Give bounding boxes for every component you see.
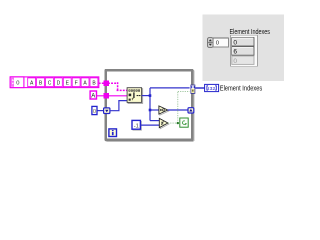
boolean wire not-equal to junction, tunnel and conditional terminal bbox=[168, 91, 190, 123]
svg-text:C: C bbox=[48, 81, 52, 87]
index sub box bbox=[10, 77, 24, 88]
wire tunnel to indicator bbox=[195, 87, 204, 89]
svg-text:6: 6 bbox=[233, 49, 237, 56]
index display box bbox=[213, 38, 229, 47]
while loop border bbox=[105, 69, 195, 142]
index spinner bbox=[208, 38, 213, 48]
wire search output to junction column bbox=[142, 88, 190, 121]
left shift register (down arrow) bbox=[104, 108, 110, 114]
tunnel for string A on loop border bbox=[103, 93, 109, 99]
array element cell 1 value 0 bbox=[232, 38, 254, 47]
svg-text:0: 0 bbox=[93, 109, 96, 115]
svg-text:0: 0 bbox=[16, 81, 19, 87]
junction dot to increment bbox=[149, 109, 152, 112]
right shift register (up arrow) bbox=[188, 108, 194, 113]
not equal? function bbox=[159, 118, 169, 128]
wire left SR to search start index input bbox=[110, 101, 127, 111]
string wire A to search element input bbox=[97, 95, 128, 97]
front panel background bbox=[203, 14, 284, 81]
svg-text:I32: I32 bbox=[208, 86, 216, 92]
array element cells A B C D E F A B bbox=[28, 78, 98, 87]
top array cells row bbox=[129, 90, 131, 92]
array shell bbox=[231, 35, 258, 66]
numeric constant -1 bbox=[132, 120, 141, 130]
svg-text:0: 0 bbox=[233, 39, 237, 46]
search pointer bar bbox=[133, 92, 134, 98]
wire 0 to left shift register bbox=[97, 110, 104, 112]
increment +1 function bbox=[159, 106, 169, 115]
svg-text:-1: -1 bbox=[134, 123, 139, 129]
junction dot on search output bbox=[149, 94, 152, 97]
string array wire from constant to loop and search function bbox=[99, 82, 128, 90]
iteration terminal i bbox=[109, 129, 117, 137]
Search 1D Array function icon bbox=[127, 88, 143, 104]
wire -1 to not-equal input bbox=[141, 124, 160, 126]
svg-text:D: D bbox=[57, 81, 61, 87]
string array constant bbox=[10, 77, 99, 88]
conditional indexing tunnel on right border bbox=[191, 85, 195, 93]
output dashes bbox=[137, 95, 139, 96]
indicator terminal [I32] bbox=[205, 84, 219, 91]
element square bbox=[129, 94, 132, 97]
array element cell 3 dimmed 0 bbox=[232, 56, 254, 65]
string constant A bbox=[90, 91, 96, 100]
tunnel for array wire on loop border bbox=[103, 81, 109, 87]
array element cell 2 value 6 bbox=[232, 47, 254, 56]
wire increment to right shift register bbox=[168, 109, 189, 111]
boolean junction dot bbox=[177, 122, 179, 124]
bottom square and mark bbox=[129, 99, 131, 101]
conditional terminal (continue if true) bbox=[180, 118, 188, 127]
svg-text:Element Indexes: Element Indexes bbox=[220, 86, 263, 93]
svg-text:0: 0 bbox=[216, 40, 219, 46]
svg-text:F: F bbox=[75, 81, 78, 87]
numeric constant 0 bbox=[92, 106, 97, 115]
svg-text:0: 0 bbox=[233, 58, 237, 65]
svg-text:A: A bbox=[91, 94, 95, 100]
